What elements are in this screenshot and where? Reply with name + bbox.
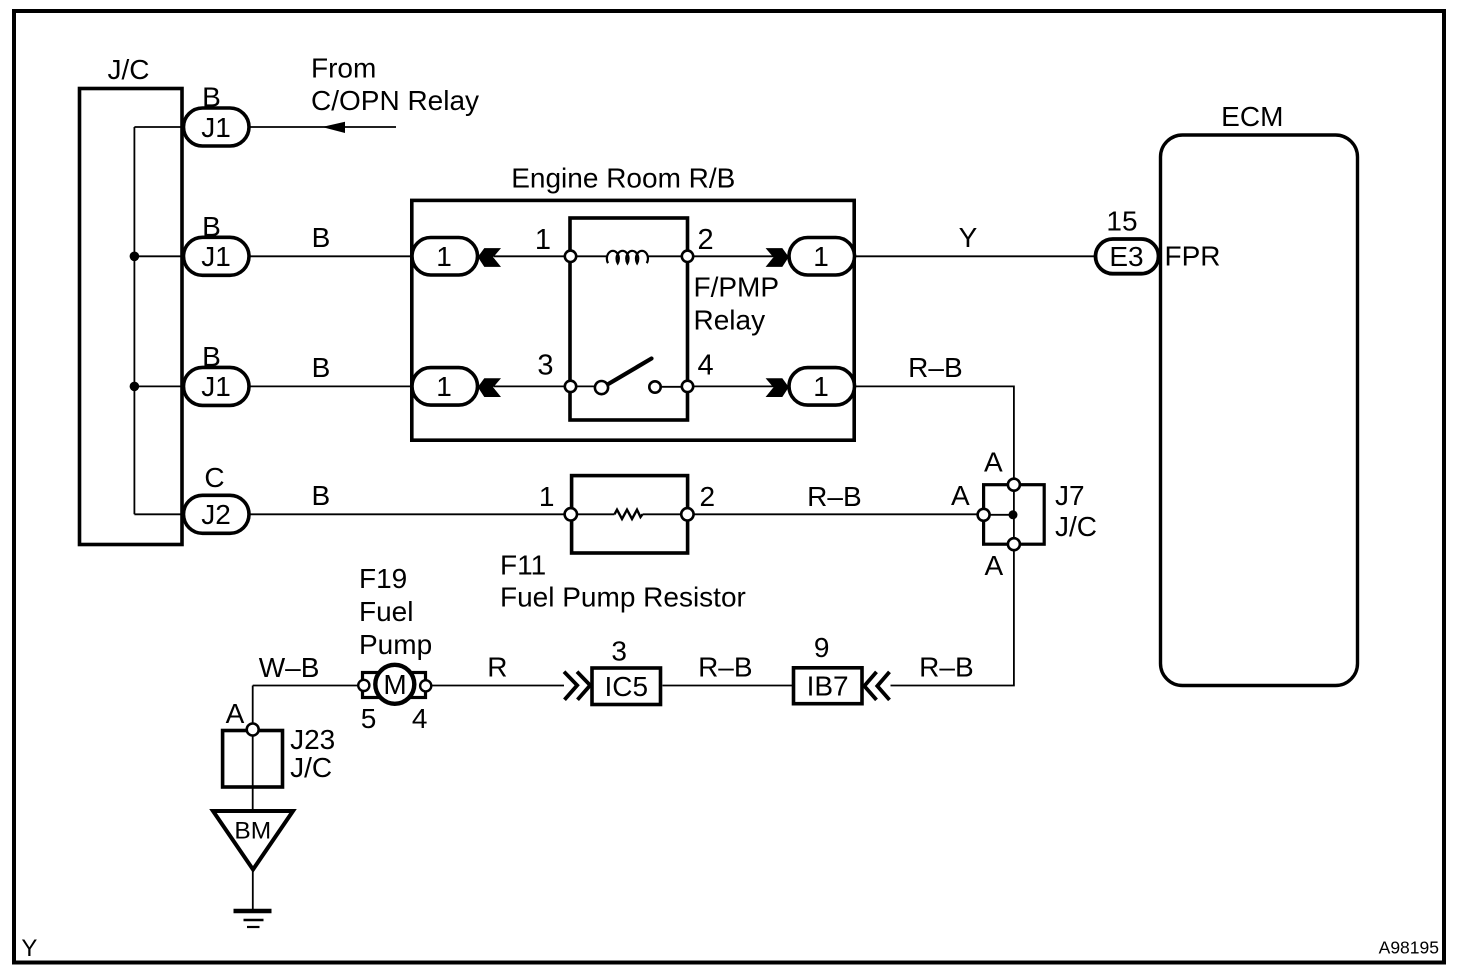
wire row3 J1 to relay oval [249, 385, 412, 387]
wire W-B corner down to J23 circle [252, 686, 254, 730]
svg-text:R–B: R–B [807, 481, 861, 512]
connector oval J2 row4 [184, 495, 250, 533]
svg-text:1: 1 [539, 481, 555, 512]
connector oval E3 [1096, 239, 1159, 274]
wire row1 stub J/C to J1 [134, 126, 184, 128]
svg-text:F19: F19 [359, 563, 407, 594]
wire J/C inner vertical bus [133, 127, 135, 514]
svg-text:J/C: J/C [1055, 511, 1097, 542]
wire row4 F11 pin1 to zigzag [577, 513, 615, 515]
svg-text:B: B [202, 211, 221, 242]
svg-text:C: C [204, 462, 224, 493]
connector oval J1 row1 [184, 108, 250, 146]
J7 pin circle top [1008, 479, 1020, 491]
svg-text:9: 9 [814, 632, 830, 663]
svg-text:2: 2 [700, 481, 716, 512]
svg-text:ECM: ECM [1221, 101, 1283, 132]
svg-text:4: 4 [412, 703, 428, 734]
wire row2 relay to E3 [855, 255, 1097, 257]
wire row4 J/C bus corner to J2 [134, 513, 184, 515]
svg-text:B: B [202, 341, 221, 372]
wire row2 stub J/C to J1 [134, 255, 184, 257]
svg-text:J1: J1 [201, 112, 231, 143]
J7 pin circle left [978, 509, 990, 521]
BM ground triangle [213, 811, 293, 870]
wire row3 switch to pin4 [660, 386, 687, 388]
svg-text:A98195: A98195 [1379, 938, 1439, 958]
arrow from C/OPN relay (left-pointing) [322, 122, 345, 133]
relay oval 1 row3 left [412, 368, 478, 406]
relay switch lever [608, 359, 652, 385]
svg-text:2: 2 [698, 224, 714, 256]
svg-text:M: M [383, 669, 406, 700]
svg-text:1: 1 [813, 371, 829, 402]
svg-text:1: 1 [436, 241, 452, 272]
svg-text:J1: J1 [201, 241, 231, 272]
wire row2 coil to pin2 [647, 255, 687, 257]
svg-text:W–B: W–B [259, 652, 320, 683]
arrow into right oval row3 [766, 378, 789, 397]
F11 pin circle 2 [681, 508, 693, 520]
fuel pump motor tab rect [363, 673, 426, 698]
svg-text:Y: Y [959, 222, 978, 253]
relay pin circle 3 [565, 381, 576, 392]
svg-text:From: From [311, 53, 376, 84]
wire row2 arrow to pin1 [494, 255, 570, 257]
F11 fuel pump resistor box [572, 476, 688, 553]
wire row4 J2 to F11 pin1 [250, 513, 572, 515]
svg-text:F11: F11 [500, 550, 546, 581]
svg-text:J1: J1 [201, 371, 231, 402]
svg-text:B: B [202, 82, 221, 113]
relay oval 1 row3 right [789, 368, 855, 406]
resistor zigzag F11 [615, 510, 643, 519]
wire row2 pin1 to coil [576, 255, 607, 257]
wire row3 pin4 to right arrow [693, 385, 773, 387]
svg-text:R–B: R–B [919, 652, 973, 683]
svg-text:Pump: Pump [359, 629, 432, 660]
wire row3 pin3 to switch contact [576, 385, 596, 387]
wire row5 motor pin4 to IC5 chevrons [426, 685, 564, 687]
G-WIRES [134, 127, 1096, 909]
wire J7 bottom down to IB7 row then left [891, 544, 1014, 686]
svg-text:A: A [985, 550, 1004, 581]
svg-text:B: B [312, 352, 331, 383]
svg-text:3: 3 [611, 636, 627, 667]
svg-text:IB7: IB7 [807, 671, 849, 702]
svg-text:Fuel: Fuel [359, 596, 413, 627]
svg-text:5: 5 [361, 703, 377, 734]
svg-text:B: B [312, 480, 331, 511]
relay oval 1 row2 right [789, 238, 855, 276]
svg-text:BM: BM [234, 818, 271, 845]
J/C junction block rectangle [80, 89, 183, 545]
svg-text:F/PMP: F/PMP [694, 271, 780, 302]
svg-text:Engine Room R/B: Engine Room R/B [511, 163, 735, 194]
IB7 box [794, 668, 863, 704]
svg-text:J7: J7 [1055, 480, 1085, 511]
ground symbol [234, 909, 272, 914]
wire row2 pin2 to right arrow [693, 255, 773, 257]
wire J7 left circle to center dot [989, 514, 1014, 516]
relay coil [607, 251, 648, 263]
wire thin through J23 box to BM triangle [252, 729, 254, 811]
svg-text:R–B: R–B [698, 652, 752, 683]
svg-text:1: 1 [535, 224, 551, 256]
svg-text:J2: J2 [201, 499, 231, 530]
connector oval J1 row2 [184, 237, 250, 275]
svg-text:IC5: IC5 [605, 671, 649, 702]
svg-text:Fuel Pump Resistor: Fuel Pump Resistor [500, 582, 746, 613]
svg-text:1: 1 [813, 241, 829, 272]
svg-text:A: A [984, 446, 1003, 477]
svg-text:J/C: J/C [290, 752, 332, 783]
IC5 box [592, 668, 661, 705]
connector oval J1 row3 [184, 367, 250, 405]
svg-text:C/OPN Relay: C/OPN Relay [311, 85, 479, 116]
relay pin circle 1 [565, 251, 576, 262]
wire row3 relay right to J7 corner and down [855, 386, 1014, 485]
wire row4 F11 pin2 to J7 [694, 513, 984, 515]
chevrons into IC5 (right-pointing) [564, 672, 590, 700]
motor pin circle 4 [420, 680, 431, 691]
wire row5 IC5 to IB7 [663, 685, 794, 687]
J7 center dot [1009, 510, 1018, 519]
svg-text:R: R [487, 652, 507, 683]
wire row3 arrow to pin3 [494, 385, 570, 387]
F11 pin circle 1 [565, 508, 577, 520]
svg-text:J23: J23 [290, 724, 335, 755]
J7 pin circle bottom [1008, 538, 1020, 550]
arrow into right oval row2 [766, 248, 789, 267]
svg-text:J/C: J/C [108, 54, 150, 85]
wire row1 J1 to C/OPN relay [249, 126, 396, 128]
svg-text:Relay: Relay [694, 305, 766, 336]
svg-text:4: 4 [698, 350, 714, 382]
wire J7 vertical through box [1013, 485, 1015, 544]
svg-text:A: A [226, 698, 245, 729]
junction dot row3 [130, 382, 140, 392]
junction dot row2 [130, 251, 140, 261]
svg-text:A: A [951, 480, 970, 511]
Engine Room R/B box [412, 200, 854, 440]
wire BM apex to ground [252, 869, 254, 909]
svg-text:15: 15 [1106, 206, 1137, 237]
wire row3 stub J/C to J1 [134, 385, 184, 387]
wire row2 J1 to relay oval [249, 255, 412, 257]
switch contact circle a [595, 381, 608, 394]
relay pin circle 2 [682, 251, 693, 262]
motor pin circle 5 [358, 680, 369, 691]
wire row5 corner to motor pin5 [253, 685, 364, 687]
relay pin circle 4 [682, 381, 693, 392]
arrow into left oval row3 [478, 378, 501, 397]
J23 pin circle A [247, 724, 259, 736]
ECM box [1161, 135, 1358, 686]
svg-text:3: 3 [537, 350, 553, 382]
svg-text:E3: E3 [1109, 241, 1143, 272]
svg-text:B: B [312, 222, 331, 253]
wire row4 zigzag to pin2 [643, 513, 688, 515]
svg-text:FPR: FPR [1165, 241, 1221, 272]
fuel pump motor circle [375, 665, 414, 704]
switch contact circle b [649, 381, 660, 392]
svg-text:1: 1 [436, 371, 452, 402]
svg-text:Y: Y [21, 935, 37, 962]
J7 J/C box [984, 485, 1045, 545]
chevrons out of IB7 (left-pointing) [864, 672, 889, 700]
arrow into left oval row2 [478, 248, 501, 267]
relay oval 1 row2 left [412, 238, 478, 276]
F/PMP relay inner box [570, 218, 688, 420]
J23 J/C box [223, 731, 283, 788]
svg-text:R–B: R–B [908, 352, 962, 383]
